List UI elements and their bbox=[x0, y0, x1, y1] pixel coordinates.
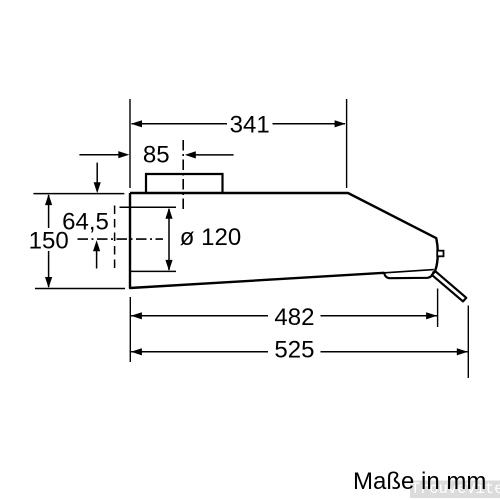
watermark box bbox=[410, 481, 500, 499]
dimension line dia 120 bbox=[168, 209, 170, 270]
dimension 85 right arrow bbox=[195, 154, 234, 156]
svg-text:482: 482 bbox=[274, 304, 314, 331]
svg-text:525: 525 bbox=[274, 337, 314, 364]
exhaust flap bbox=[432, 271, 466, 301]
extension line 525 right bbox=[467, 306, 469, 379]
arrow 482 right bbox=[426, 312, 437, 319]
extension line right (341) bbox=[346, 99, 348, 188]
arrow 525 left bbox=[131, 348, 142, 355]
hidden duct bottom line bbox=[131, 270, 177, 272]
extension line 482 right bbox=[437, 289, 439, 328]
extension line left (341/85) bbox=[129, 99, 131, 188]
dimension 64,5 upper arrow bbox=[96, 163, 98, 184]
hood body outline bbox=[130, 193, 438, 288]
svg-text:Maße in mm: Maße in mm bbox=[353, 468, 486, 495]
dimension line 150 bbox=[48, 195, 50, 228]
svg-text:85: 85 bbox=[143, 142, 170, 169]
right tab bbox=[437, 251, 443, 257]
arrow 525 right bbox=[457, 348, 468, 355]
hood front lip channel bbox=[384, 271, 434, 278]
svg-text:64,5: 64,5 bbox=[62, 208, 109, 235]
arrow 150 down bbox=[45, 277, 52, 288]
hood bottom inner edge bbox=[385, 270, 434, 273]
dimension 85 left arrow bbox=[79, 154, 120, 156]
hidden duct top line bbox=[120, 206, 177, 208]
arrow 150 up bbox=[45, 194, 52, 205]
dashed hidden edge bbox=[114, 206, 116, 273]
duct collar bbox=[146, 174, 223, 193]
extension line bottom left (482/525) bbox=[129, 297, 131, 362]
horizontal center line (outlet axis) bbox=[78, 238, 164, 240]
arrow 120 down bbox=[165, 260, 172, 271]
reference line 150 bottom bbox=[35, 288, 125, 290]
svg-text:ø 120: ø 120 bbox=[180, 224, 241, 251]
dimension line 341 bbox=[132, 123, 228, 125]
svg-text:341: 341 bbox=[230, 112, 270, 139]
dimension line 482 bbox=[131, 315, 268, 317]
arrow 482 left bbox=[131, 312, 142, 319]
dimension line 525 bbox=[131, 351, 268, 353]
reference line 150 top bbox=[33, 193, 124, 195]
vertical center line (duct axis) bbox=[182, 140, 184, 209]
dimension 64,5 lower arrow bbox=[96, 250, 98, 269]
arrow 120 up bbox=[165, 208, 172, 219]
arrow 341 right bbox=[335, 120, 346, 127]
arrow 341 left bbox=[131, 120, 142, 127]
